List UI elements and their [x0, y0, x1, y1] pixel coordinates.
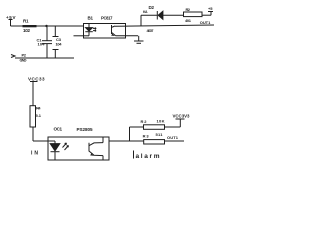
svg-text:IN: IN — [31, 151, 38, 157]
svg-text:102: 102 — [23, 28, 30, 33]
svg-text:104: 104 — [56, 41, 63, 46]
svg-text:OUT1: OUT1 — [200, 20, 211, 25]
svg-text:5.1: 5.1 — [36, 113, 42, 118]
svg-text:R4: R4 — [36, 106, 41, 111]
svg-text:104: 104 — [38, 41, 46, 46]
svg-text:OC1: OC1 — [54, 127, 63, 132]
svg-text:KA: KA — [143, 10, 148, 14]
svg-text:VCC33: VCC33 — [28, 77, 45, 82]
svg-text:D2: D2 — [149, 5, 155, 10]
svg-text:OUT1: OUT1 — [167, 135, 179, 140]
svg-text:R1: R1 — [23, 18, 29, 23]
svg-text:B1: B1 — [88, 16, 94, 21]
svg-text:+5V: +5V — [6, 15, 16, 20]
svg-text:511: 511 — [156, 132, 164, 137]
svg-text:+5: +5 — [208, 6, 213, 11]
svg-text:401: 401 — [185, 18, 192, 23]
svg-text:VCC3V3: VCC3V3 — [173, 114, 191, 119]
svg-text:PS2805: PS2805 — [77, 127, 93, 132]
svg-text:R2: R2 — [141, 119, 148, 124]
svg-text:10K: 10K — [157, 118, 165, 123]
svg-text:R2: R2 — [186, 7, 191, 12]
svg-text:R3: R3 — [143, 134, 150, 139]
svg-text:PC817: PC817 — [101, 15, 113, 20]
svg-text:4007: 4007 — [147, 28, 155, 33]
svg-text:GND: GND — [20, 57, 27, 62]
